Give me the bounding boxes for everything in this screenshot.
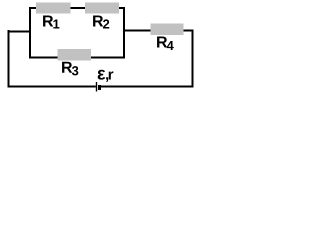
label epsilon,r (emf and internal resistance) [98,70,114,82]
resistor R4 [151,24,184,36]
wire top branch [29,7,125,9]
resistor R2 [85,3,119,14]
wire outer left vertical [8,30,10,88]
label R1 [43,15,59,28]
wire bottom right from battery [101,86,194,88]
resistor R3 [58,49,92,61]
wire left vertical of parallel pair [29,7,31,59]
label R4 [157,36,174,50]
label R3 [62,62,78,76]
wire right vertical of parallel pair [123,7,125,59]
resistor R1 [36,3,71,14]
battery thick plate (short terminal) [98,85,101,90]
label R2 [93,15,109,28]
wire bottom left to battery [8,86,96,88]
wire outer right vertical [192,30,194,88]
wire R3 branch [29,57,125,59]
wire mid-right to R4 [123,30,194,32]
battery thin plate (long terminal) [96,82,97,92]
wire mid-left to outer loop [8,31,32,33]
